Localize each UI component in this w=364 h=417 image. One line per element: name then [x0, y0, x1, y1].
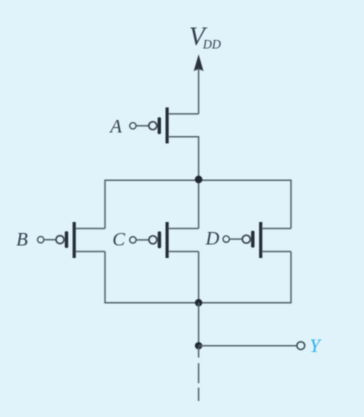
- gate bubble C: [149, 236, 157, 244]
- wire output node to Y terminal: [199, 345, 297, 347]
- transistor D (PMOS): [205, 222, 291, 258]
- wire A drain lead: [169, 137, 199, 181]
- wire B drain lead: [76, 251, 105, 253]
- wire A source lead: [169, 113, 199, 115]
- svg-text:A: A: [108, 117, 122, 138]
- gate bubble B: [56, 236, 64, 244]
- gate bar C: [158, 231, 161, 248]
- wire bottom rail to output node: [198, 303, 200, 346]
- channel bar C: [166, 222, 169, 258]
- VDD arrow: [194, 54, 204, 71]
- svg-text:D: D: [205, 229, 220, 250]
- wire B source lead: [76, 228, 105, 230]
- channel bar D: [259, 222, 262, 258]
- node C terminal circle: [130, 237, 136, 243]
- junction dot bottom rail: [195, 299, 202, 306]
- wire C drain lead: [169, 251, 199, 253]
- node D terminal circle: [223, 236, 229, 242]
- wire dash segment: [198, 388, 200, 401]
- wire center riser bottom: [198, 252, 200, 303]
- junction dot output node: [195, 342, 202, 349]
- wire D source lead: [262, 228, 291, 230]
- wire center riser top: [198, 180, 200, 228]
- wire D drain lead: [262, 251, 291, 253]
- transistor C (PMOS): [112, 222, 198, 258]
- gate bar D: [251, 231, 254, 248]
- gate bubble A: [149, 122, 157, 130]
- wire dash segment: [198, 363, 200, 383]
- svg-text:C: C: [112, 230, 125, 251]
- gate bar B: [65, 231, 68, 248]
- node A terminal circle: [130, 123, 136, 129]
- wire top rail: [105, 180, 291, 228]
- junction dot top rail: [195, 176, 203, 184]
- wire D terminal to gate bubble: [230, 238, 243, 240]
- svg-text:B: B: [16, 229, 28, 250]
- wire A terminal to gate bubble: [136, 125, 148, 127]
- node B terminal circle: [38, 237, 44, 243]
- wire dashed stub below output node: [198, 347, 200, 358]
- gate bar A: [158, 117, 161, 134]
- transistor B (PMOS): [16, 222, 105, 258]
- node Y terminal circle: [297, 342, 305, 350]
- channel bar B: [73, 222, 76, 258]
- wire bottom rail: [105, 252, 291, 303]
- wire C terminal to gate bubble: [136, 239, 148, 241]
- channel bar A: [166, 107, 169, 143]
- transistor A (PMOS): [108, 107, 198, 180]
- wire VDD arrow stem to A source: [198, 68, 200, 114]
- wire C source lead: [169, 228, 199, 230]
- wire B terminal to gate bubble: [44, 239, 56, 241]
- gate bubble D: [242, 235, 250, 243]
